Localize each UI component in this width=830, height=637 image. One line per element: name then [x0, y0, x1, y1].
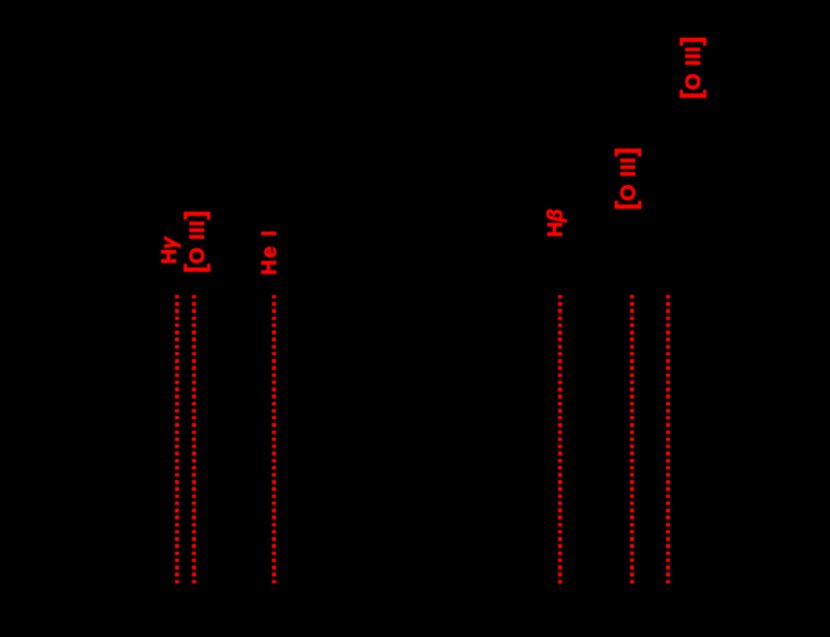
label Hgamma: [159, 237, 180, 264]
dotted line He I 4471: [272, 295, 276, 584]
label [O III] b: [615, 147, 639, 210]
dotted line [O III] 4959: [630, 295, 634, 584]
dotted line [O III] 5007: [666, 295, 670, 584]
dotted line Hbeta 4861: [558, 295, 562, 584]
label [O III] c: [680, 36, 704, 99]
dotted line Hgamma 4340: [175, 295, 179, 584]
label [O III] a: [184, 210, 208, 273]
dotted line [O III] 4363: [192, 295, 196, 584]
label He I: [259, 229, 280, 276]
label Hbeta: [545, 209, 566, 237]
